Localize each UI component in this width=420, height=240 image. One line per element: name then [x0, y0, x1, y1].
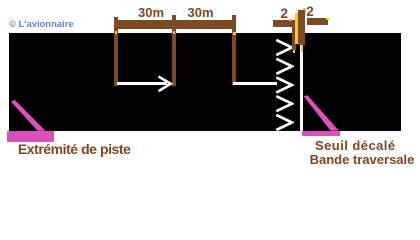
label 30m second	[188, 6, 214, 19]
chevron 4	[276, 96, 292, 111]
yellow dot on left tick	[115, 31, 117, 34]
ruler tick middle	[172, 15, 176, 86]
central brown bar	[298, 10, 305, 45]
caption bande traversale	[310, 153, 415, 166]
caption extremite	[18, 143, 131, 156]
white arrow 1 head	[155, 73, 175, 95]
ruler tick right	[232, 15, 236, 85]
yellow top nub	[303, 8, 306, 13]
pink diagonal left	[5, 95, 50, 137]
yellow dot above left 2m bar	[289, 19, 291, 21]
chevron 3	[276, 78, 292, 93]
chevron 1	[276, 40, 292, 55]
label 30m first	[138, 6, 164, 19]
2m measure: right bar	[307, 18, 327, 25]
copyright label	[9, 20, 74, 30]
yellow tick A	[295, 13, 298, 44]
pink bar right	[302, 131, 341, 136]
white arrow 1 shaft	[117, 82, 167, 85]
yellow dot on right tick	[233, 32, 235, 35]
yellow square right end	[326, 18, 329, 21]
label 2 right	[306, 5, 314, 18]
pink bar left (threshold)	[7, 131, 54, 143]
yellow under central bar	[301, 45, 303, 52]
yellow tip of left tick	[293, 50, 295, 52]
chevron 5	[276, 115, 292, 130]
2m measure: left bar	[273, 20, 296, 27]
yellow dot on middle tick	[173, 31, 175, 34]
chevron column	[275, 38, 294, 133]
transverse white band	[300, 33, 303, 131]
runway surface	[9, 33, 401, 131]
ruler bar 30m+30m	[114, 20, 236, 29]
ruler tick left	[114, 17, 118, 86]
2m measure: left bar tick down	[292, 27, 296, 51]
chevron 2	[276, 59, 292, 74]
label 2 left	[281, 7, 289, 20]
white measure line 2	[233, 82, 277, 85]
pink diagonal right	[300, 92, 342, 134]
caption seuil decale	[315, 139, 396, 152]
